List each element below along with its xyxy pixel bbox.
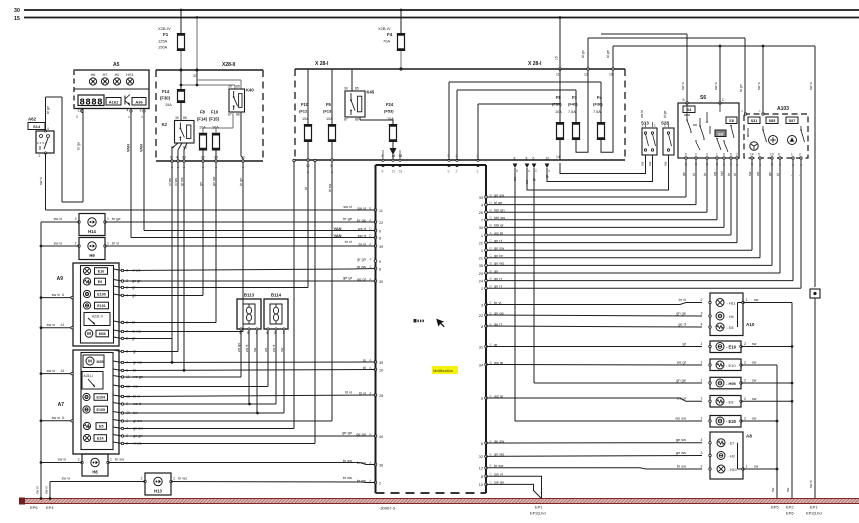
svg-text:- H11: - H11 — [727, 301, 736, 305]
svg-text:1: 1 — [701, 416, 703, 420]
svg-text:- E7: - E7 — [728, 442, 735, 446]
svg-text:gn ge: gn ge — [676, 310, 686, 315]
svg-text:1: 1 — [664, 124, 666, 128]
svg-text:bl ge: bl ge — [663, 111, 667, 118]
svg-text:(F13): (F13) — [323, 109, 333, 114]
svg-text:sw: sw — [641, 161, 645, 166]
svg-text:30: 30 — [479, 226, 483, 230]
svg-text:F24: F24 — [386, 102, 394, 107]
svg-text:9: 9 — [481, 397, 483, 401]
svg-text:15: 15 — [555, 56, 559, 60]
svg-text:22: 22 — [479, 314, 483, 318]
svg-text:bl: bl — [304, 187, 308, 190]
svg-text:H6: H6 — [91, 73, 96, 77]
svg-text:gn rt: gn rt — [494, 284, 503, 289]
svg-text:F1: F1 — [163, 32, 169, 37]
svg-text:2: 2 — [141, 477, 143, 481]
svg-text:2: 2 — [744, 342, 746, 346]
svg-text:sw: sw — [752, 397, 757, 401]
svg-text:19: 19 — [392, 170, 396, 174]
svg-text:X 28-I: X 28-I — [528, 61, 542, 67]
svg-text:28: 28 — [379, 394, 383, 398]
svg-text:ge: ge — [682, 172, 686, 176]
svg-text:8888: 8888 — [80, 97, 103, 107]
svg-text:9: 9 — [379, 229, 381, 233]
svg-text:gn ws: gn ws — [676, 450, 686, 455]
svg-text:H13: H13 — [154, 489, 162, 494]
svg-text:bl vi: bl vi — [359, 390, 366, 395]
svg-text:18: 18 — [399, 170, 403, 174]
svg-text:sw: sw — [752, 361, 757, 365]
svg-text:A8: A8 — [746, 434, 752, 439]
svg-text:12: 12 — [479, 467, 483, 471]
svg-text:br sw: br sw — [115, 458, 124, 462]
svg-text:X 28-I: X 28-I — [315, 61, 329, 67]
svg-text:br gn: br gn — [239, 178, 243, 186]
svg-text:sw: sw — [754, 298, 759, 302]
svg-text:EP1: EP1 — [535, 505, 543, 510]
svg-text:ge gr: ge gr — [343, 275, 353, 280]
svg-text:sw vi: sw vi — [343, 204, 352, 209]
svg-text:F8: F8 — [200, 110, 206, 115]
svg-text:10: 10 — [546, 157, 550, 161]
svg-text:10: 10 — [379, 368, 383, 372]
svg-text:(F12): (F12) — [299, 109, 309, 114]
svg-text:B: B — [516, 169, 518, 173]
svg-text:br sw: br sw — [677, 463, 686, 468]
svg-text:15: 15 — [14, 16, 20, 22]
svg-text:1: 1 — [701, 342, 703, 346]
svg-text:14: 14 — [60, 369, 64, 373]
svg-text:M36: M36 — [99, 332, 106, 336]
svg-text:hbl ws: hbl ws — [494, 215, 505, 220]
svg-text:10A: 10A — [302, 117, 309, 121]
svg-text:K45: K45 — [367, 90, 375, 95]
svg-text:ws sw: ws sw — [675, 415, 686, 420]
svg-text:X28-II: X28-II — [222, 62, 236, 68]
svg-text:ws: ws — [756, 172, 760, 176]
svg-text:ws rt: ws rt — [272, 345, 276, 352]
svg-text:34: 34 — [479, 363, 483, 367]
svg-text:35: 35 — [479, 264, 483, 268]
svg-text:- H3: - H3 — [728, 455, 735, 459]
svg-text:8: 8 — [379, 236, 381, 240]
svg-text:(F14): (F14) — [197, 117, 208, 122]
svg-text:ws gn: ws gn — [237, 343, 241, 352]
svg-text:ge rt: ge rt — [678, 321, 687, 326]
svg-text:39: 39 — [379, 245, 383, 249]
svg-text:2: 2 — [78, 458, 80, 462]
svg-text:- E9: - E9 — [726, 400, 734, 405]
svg-text:A5: A5 — [113, 62, 120, 68]
svg-text:sw: sw — [786, 487, 790, 492]
svg-text:2: 2 — [75, 242, 77, 246]
svg-text:S6: S6 — [700, 95, 706, 101]
svg-text:86: 86 — [355, 118, 359, 122]
svg-text:sw vi: sw vi — [757, 82, 761, 90]
svg-text:A: A — [759, 109, 761, 113]
svg-text:br vi: br vi — [112, 242, 119, 246]
svg-text:2: 2 — [39, 154, 41, 158]
svg-text:A62: A62 — [28, 117, 37, 122]
svg-text:HS1: HS1 — [126, 73, 133, 77]
svg-text:26: 26 — [479, 211, 483, 215]
svg-text:10A: 10A — [387, 117, 394, 121]
svg-text:sw vi: sw vi — [54, 242, 63, 246]
svg-text:30: 30 — [344, 87, 348, 91]
svg-text:(F30): (F30) — [160, 96, 171, 101]
svg-text:B: B — [76, 115, 78, 119]
svg-text:125A: 125A — [158, 39, 168, 44]
svg-text:S8: S8 — [729, 119, 734, 123]
svg-text:sw: sw — [752, 417, 757, 421]
svg-text:- H95: - H95 — [726, 381, 737, 386]
svg-text:2: 2 — [75, 217, 77, 221]
svg-text:150A: 150A — [158, 45, 168, 50]
svg-text:24: 24 — [479, 279, 483, 283]
svg-text:10A: 10A — [199, 126, 206, 130]
svg-text:E16: E16 — [98, 270, 104, 274]
svg-text:sw: sw — [754, 465, 759, 469]
svg-text:bl: bl — [692, 173, 696, 176]
svg-text:8: 8 — [723, 152, 725, 156]
svg-text:sw: sw — [748, 171, 752, 176]
svg-text:gn ws: gn ws — [494, 261, 504, 266]
svg-text:gn: gn — [199, 182, 203, 186]
svg-text:sw vi: sw vi — [36, 486, 40, 494]
svg-text:sw vi: sw vi — [809, 480, 813, 488]
svg-text:14: 14 — [556, 155, 560, 159]
svg-text:sw vi: sw vi — [47, 323, 56, 327]
svg-text:gn: gn — [494, 268, 498, 273]
svg-text:(F53): (F53) — [384, 109, 394, 114]
svg-text:sw: sw — [771, 487, 775, 492]
svg-text:EP6: EP6 — [786, 511, 794, 516]
svg-text:85: 85 — [355, 87, 359, 91]
svg-text:M: M — [88, 359, 92, 364]
svg-text:- H4: - H4 — [727, 315, 734, 319]
svg-text:sw vi: sw vi — [62, 477, 71, 481]
svg-text:1: 1 — [173, 477, 175, 481]
svg-text:22: 22 — [201, 156, 205, 160]
svg-text:sw: sw — [253, 347, 257, 352]
svg-text:sw: sw — [280, 347, 284, 352]
svg-text:-: - — [789, 175, 793, 176]
svg-text:4: 4 — [701, 438, 703, 442]
svg-text:ws gr: ws gr — [677, 396, 687, 401]
svg-text:Multifunction: Multifunction — [433, 369, 453, 373]
svg-text:sw vi: sw vi — [45, 486, 49, 494]
svg-text:2: 2 — [744, 417, 746, 421]
svg-text:(F15): (F15) — [209, 117, 220, 122]
svg-text:F14: F14 — [162, 89, 170, 94]
svg-text:br ge: br ge — [77, 142, 81, 150]
svg-text:H8: H8 — [92, 470, 98, 475]
svg-text:A161: A161 — [109, 99, 119, 104]
svg-text:8: 8 — [514, 157, 516, 161]
svg-text:bl gn: bl gn — [581, 50, 585, 58]
svg-text:F8: F8 — [556, 95, 562, 100]
svg-text:A10: A10 — [746, 322, 755, 327]
svg-text:3: 3 — [481, 303, 483, 307]
svg-text:2: 2 — [701, 298, 703, 302]
svg-text:br ge: br ge — [112, 217, 121, 221]
svg-text:14: 14 — [60, 323, 64, 327]
svg-text:E14: E14 — [97, 437, 103, 441]
svg-text:6: 6 — [62, 416, 64, 420]
svg-text:S85: S85 — [769, 119, 776, 123]
svg-text:6: 6 — [170, 156, 172, 160]
svg-text:86: 86 — [236, 113, 240, 117]
svg-text:11: 11 — [379, 209, 383, 213]
svg-text:sw vi: sw vi — [52, 416, 61, 420]
svg-text:- E8: - E8 — [727, 326, 734, 330]
svg-text:sw: sw — [752, 379, 757, 383]
svg-text:1: 1 — [481, 234, 483, 238]
svg-text:S9: S9 — [718, 132, 723, 136]
svg-text:3: 3 — [701, 451, 703, 455]
svg-text:32: 32 — [479, 455, 483, 459]
svg-text:7,5A: 7,5A — [593, 110, 601, 114]
svg-text:K2: K2 — [162, 122, 168, 127]
svg-text:gn sw: gn sw — [212, 176, 216, 186]
svg-text:2: 2 — [744, 361, 746, 365]
svg-text:1: 1 — [481, 249, 483, 253]
svg-text:br ws: br ws — [178, 477, 187, 481]
svg-text:H9: H9 — [89, 253, 95, 258]
svg-text:B: B — [683, 98, 685, 102]
svg-text:VAN: VAN — [127, 144, 131, 152]
svg-text:A9: A9 — [57, 276, 64, 282]
svg-text:br vi: br vi — [345, 239, 352, 244]
svg-text:E5: E5 — [99, 425, 103, 429]
svg-text:35: 35 — [379, 361, 383, 365]
svg-text:3: 3 — [701, 311, 703, 315]
svg-text:8: 8 — [481, 475, 483, 479]
svg-text:24: 24 — [214, 156, 218, 160]
svg-text:30: 30 — [175, 116, 179, 120]
svg-text:EP2(Lhd: EP2(Lhd — [806, 511, 822, 516]
svg-text:5: 5 — [758, 152, 760, 156]
svg-text:8: 8 — [382, 170, 384, 174]
svg-text:19: 19 — [609, 73, 613, 77]
svg-text:gn rt: gn rt — [494, 238, 503, 243]
svg-text:E105: E105 — [97, 408, 105, 412]
svg-text:hbl gn: hbl gn — [494, 208, 505, 213]
svg-text:A231-II: A231-II — [92, 315, 103, 319]
svg-text:1: 1 — [701, 360, 703, 364]
svg-text:F4: F4 — [387, 32, 393, 37]
svg-text:2: 2 — [744, 379, 746, 383]
svg-text:E6: E6 — [98, 280, 102, 284]
svg-text:1: 1 — [107, 217, 109, 221]
svg-text:2: 2 — [701, 464, 703, 468]
svg-text:1: 1 — [701, 397, 703, 401]
svg-text:gn sw: gn sw — [494, 246, 504, 251]
svg-text:ws bl: ws bl — [640, 110, 644, 118]
svg-text:1: 1 — [746, 465, 748, 469]
svg-text:gr ws: gr ws — [180, 177, 184, 186]
svg-text:bl ge: bl ge — [606, 50, 610, 58]
svg-text:- E19: - E19 — [726, 345, 737, 350]
svg-text:M: M — [87, 331, 91, 336]
svg-text:bl: bl — [776, 173, 780, 176]
svg-text:31: 31 — [479, 345, 483, 349]
svg-text:sw: sw — [664, 161, 668, 166]
svg-text:4: 4 — [701, 322, 703, 326]
svg-text:sw vi: sw vi — [58, 458, 67, 462]
svg-text:2: 2 — [379, 481, 381, 485]
svg-text:vi ws: vi ws — [168, 178, 172, 186]
svg-text:2: 2 — [736, 152, 738, 156]
svg-text:18: 18 — [399, 154, 403, 158]
svg-text:ws: ws — [264, 347, 268, 352]
svg-text:S14: S14 — [33, 124, 41, 129]
svg-text:gn sw: gn sw — [494, 192, 504, 197]
svg-text:H2: H2 — [115, 73, 120, 77]
svg-text:- E20: - E20 — [726, 419, 737, 424]
svg-text:bl vi: bl vi — [345, 390, 352, 395]
svg-text:19: 19 — [392, 154, 396, 158]
svg-text:10A: 10A — [212, 126, 219, 130]
svg-text:B113: B113 — [244, 293, 255, 298]
svg-text:br ws: br ws — [343, 475, 352, 480]
svg-text:- H10: - H10 — [728, 468, 737, 472]
svg-text:B114: B114 — [271, 293, 282, 298]
svg-text:33: 33 — [479, 196, 483, 200]
svg-text:2: 2 — [695, 152, 697, 156]
svg-text:4: 4 — [47, 127, 49, 131]
svg-text:9: 9 — [448, 170, 450, 174]
svg-text:6: 6 — [481, 442, 483, 446]
svg-text:1: 1 — [110, 458, 112, 462]
svg-text:F3: F3 — [572, 95, 578, 100]
svg-text:X2B-IV: X2B-IV — [158, 26, 171, 31]
svg-text:-30067-3: -30067-3 — [379, 506, 396, 511]
svg-text:EP5: EP5 — [771, 505, 779, 510]
svg-text:3: 3 — [477, 170, 479, 174]
svg-text:11: 11 — [556, 73, 560, 77]
svg-text:sw: sw — [752, 342, 757, 346]
svg-text:br sw: br sw — [343, 458, 352, 463]
svg-text:7: 7 — [481, 219, 483, 223]
svg-text:8: 8 — [526, 157, 528, 161]
svg-text:10: 10 — [479, 483, 483, 487]
svg-text:bl: bl — [733, 173, 737, 176]
svg-text:gr ws: gr ws — [357, 264, 366, 269]
svg-text:8: 8 — [382, 154, 384, 158]
svg-text:1: 1 — [107, 242, 109, 246]
svg-text:1: 1 — [654, 124, 656, 128]
svg-text:A: A — [741, 109, 743, 113]
svg-text:6: 6 — [62, 293, 64, 297]
svg-text:gn br: gn br — [494, 253, 504, 258]
svg-text:F4: F4 — [597, 95, 603, 100]
svg-text:sw vi: sw vi — [39, 177, 43, 185]
svg-text:EP2: EP2 — [786, 505, 794, 510]
svg-text:4: 4 — [176, 156, 178, 160]
svg-text:vi ws: vi ws — [174, 178, 178, 186]
svg-text:sw vi: sw vi — [54, 217, 63, 221]
svg-text:1: 1 — [701, 378, 703, 382]
svg-text:E101: E101 — [97, 304, 105, 308]
svg-text:85: 85 — [183, 116, 187, 120]
svg-text:13: 13 — [770, 152, 774, 156]
svg-text:ge gn: ge gn — [342, 430, 352, 435]
svg-text:85: 85 — [236, 85, 240, 89]
svg-text:ge: ge — [768, 172, 772, 176]
svg-text:(F49): (F49) — [568, 102, 578, 107]
svg-text:bl ge: bl ge — [494, 200, 502, 205]
svg-text:br gn: br gn — [46, 106, 50, 114]
svg-text:F10: F10 — [301, 102, 309, 107]
svg-text:sw vi: sw vi — [809, 82, 813, 90]
svg-text:3: 3 — [706, 152, 708, 156]
svg-text:ws bl: ws bl — [494, 230, 503, 235]
svg-text:F10: F10 — [211, 110, 219, 115]
svg-text:8: 8 — [379, 267, 381, 271]
svg-text:ws: ws — [713, 172, 717, 176]
svg-text:bl gn: bl gn — [739, 84, 743, 92]
svg-text:87: 87 — [228, 113, 232, 117]
svg-text:H14: H14 — [88, 229, 96, 234]
svg-text:8: 8 — [481, 325, 483, 329]
svg-text:9: 9 — [379, 260, 381, 264]
svg-text:S97: S97 — [789, 119, 796, 123]
svg-text:12: 12 — [584, 73, 588, 77]
svg-text:gn rt: gn rt — [494, 276, 503, 281]
svg-text:F5: F5 — [326, 102, 332, 107]
svg-text:EP2(Lhd: EP2(Lhd — [530, 511, 546, 516]
svg-text:4: 4 — [127, 109, 129, 113]
svg-text:30: 30 — [14, 8, 20, 14]
svg-text:30: 30 — [379, 280, 383, 284]
svg-text:sw: sw — [648, 161, 652, 166]
svg-text:A36: A36 — [135, 99, 143, 104]
svg-text:br vi: br vi — [679, 297, 686, 302]
svg-text:sw vi: sw vi — [714, 82, 718, 90]
svg-text:E104: E104 — [97, 396, 105, 400]
svg-text:X2B-IV: X2B-IV — [378, 26, 391, 31]
svg-text:ws rt: ws rt — [245, 345, 249, 352]
svg-text:ge sw: ge sw — [676, 437, 686, 442]
svg-text:2: 2 — [744, 397, 746, 401]
svg-text:3: 3 — [140, 109, 142, 113]
svg-text:(F36): (F36) — [593, 102, 603, 107]
svg-text:23: 23 — [182, 156, 186, 160]
svg-text:sw vi: sw vi — [52, 293, 61, 297]
svg-text:VAN: VAN — [140, 144, 144, 152]
svg-text:6: 6 — [730, 152, 732, 156]
svg-text:E100: E100 — [97, 293, 105, 297]
svg-text:EP4: EP4 — [46, 505, 54, 510]
svg-text:A7: A7 — [58, 402, 65, 408]
svg-text:22: 22 — [479, 241, 483, 245]
svg-text:gr gn: gr gn — [357, 256, 366, 261]
svg-text:K40: K40 — [246, 88, 254, 93]
svg-text:hbl gr: hbl gr — [494, 223, 504, 228]
svg-text:2: 2 — [642, 124, 644, 128]
svg-text:ws gr: ws gr — [677, 359, 687, 364]
svg-text:30: 30 — [193, 74, 197, 78]
svg-text:14: 14 — [750, 152, 754, 156]
svg-text:EP6: EP6 — [30, 505, 38, 510]
svg-text:1: 1 — [791, 152, 793, 156]
svg-text:- E10: - E10 — [726, 363, 736, 368]
svg-text:10A: 10A — [326, 117, 333, 121]
svg-text:bl sw: bl sw — [328, 183, 332, 192]
svg-text:7,5A: 7,5A — [568, 110, 576, 114]
